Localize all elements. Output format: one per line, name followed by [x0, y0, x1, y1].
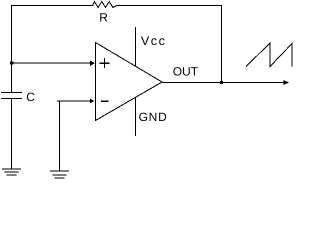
wire top feedback right segment	[117, 5, 222, 7]
wire capacitor to ground	[11, 99, 13, 170]
op-amp + input marker	[100, 58, 110, 68]
wire left vertical	[11, 5, 13, 92]
wire output	[162, 82, 285, 84]
pin GND	[135, 98, 137, 136]
wire right vertical from feedback to output node	[221, 5, 223, 82]
node OUT junction	[220, 81, 223, 84]
svg-text:C: C	[26, 90, 35, 104]
svg-text:R: R	[99, 11, 108, 25]
pin Vcc	[135, 27, 137, 66]
svg-text:OUT: OUT	[173, 65, 199, 79]
ground right	[50, 171, 69, 178]
wire inverting input to ground with arrowhead	[57, 99, 94, 171]
svg-text:Vcc: Vcc	[141, 34, 167, 48]
ground left	[2, 169, 21, 175]
wire to non-inverting input with arrowhead	[11, 61, 95, 66]
op-amp - input marker	[101, 100, 108, 102]
capacitor C plates	[1, 93, 22, 99]
output arrowhead	[284, 80, 290, 85]
svg-text:GND: GND	[139, 110, 168, 124]
node junction to non-inverting input	[10, 61, 13, 64]
op-amp U1 triangle	[96, 43, 163, 121]
wire top feedback left segment	[11, 5, 93, 7]
resistor R	[93, 2, 117, 25]
sawtooth waveform	[246, 43, 292, 67]
